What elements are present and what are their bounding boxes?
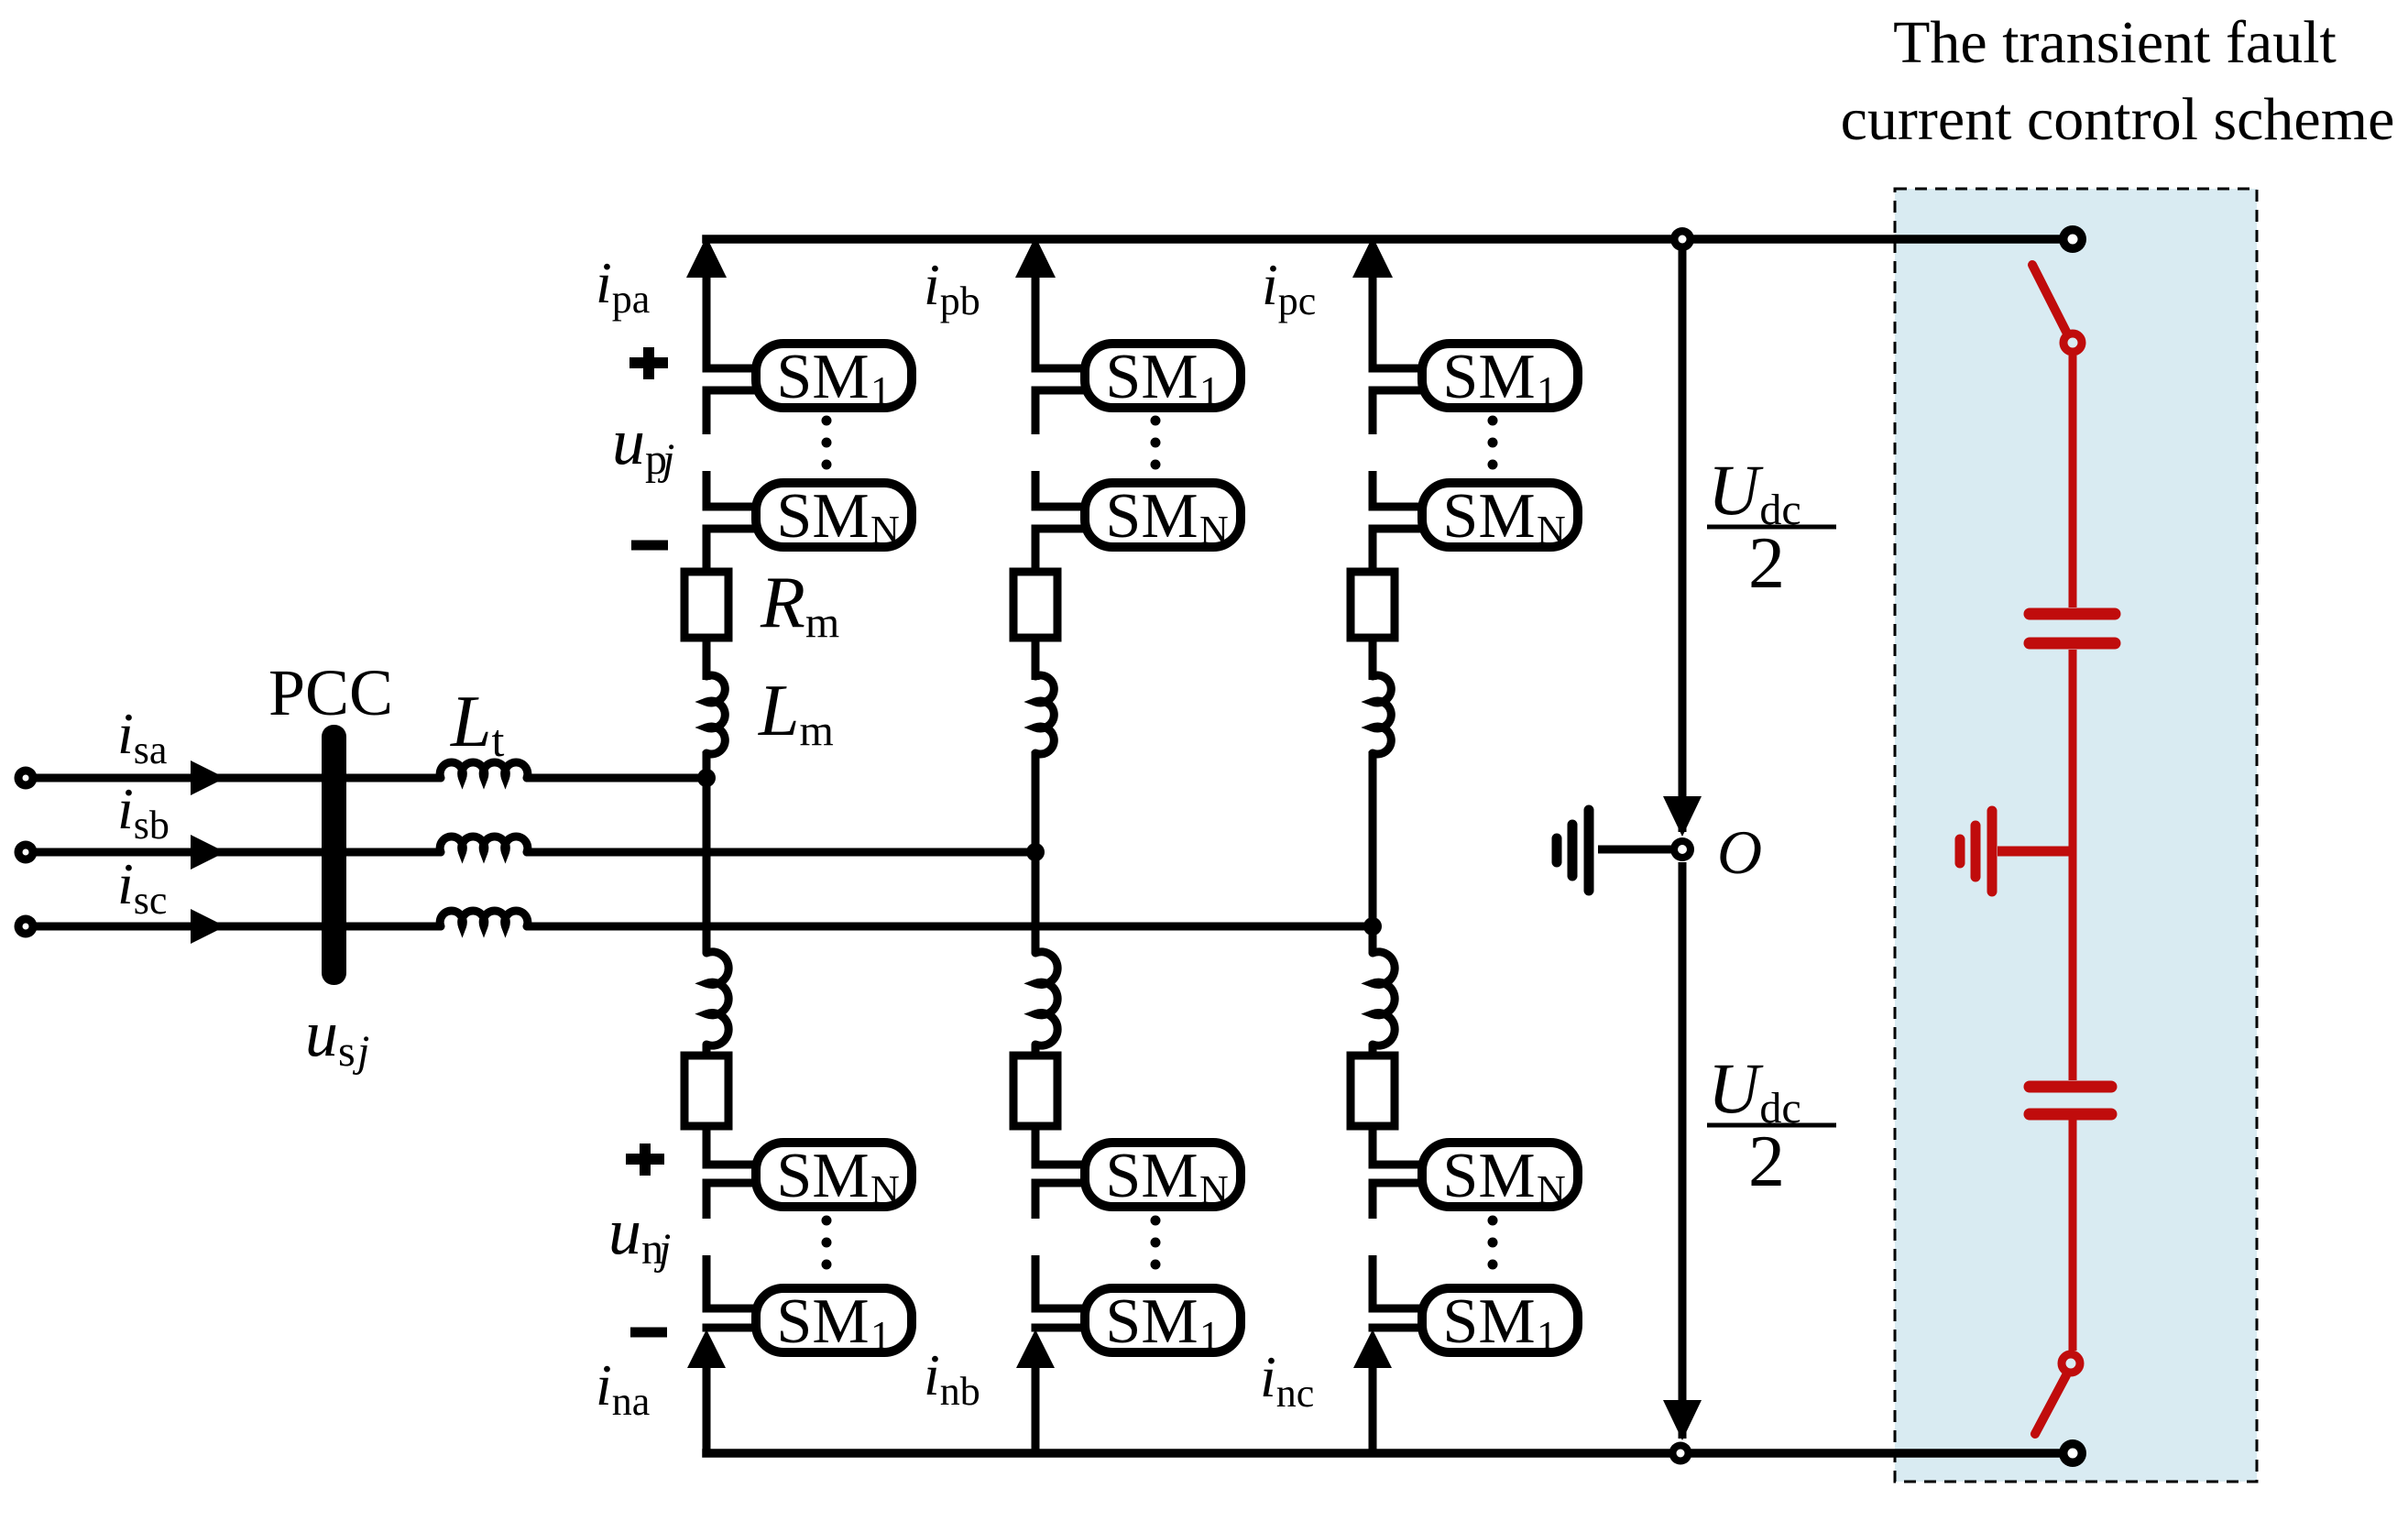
inductor L_t phase c xyxy=(440,911,528,926)
svg-text:ina: ina xyxy=(596,1352,650,1424)
svg-text:isc: isc xyxy=(117,851,167,923)
inductor L_m lower arm leg c xyxy=(1373,952,1395,1045)
svg-text:N: N xyxy=(1537,1167,1566,1212)
wire: SM stubs lower arm leg c xyxy=(1369,1161,1426,1169)
svg-text:up: up xyxy=(612,405,667,484)
label - upper arm xyxy=(631,541,668,551)
switch S2 blade (red, open) xyxy=(2035,1375,2066,1434)
terminal: DC+ to control scheme xyxy=(2059,225,2086,253)
PCC bus bar xyxy=(322,725,346,985)
wire: leg a upper arm segments xyxy=(703,271,711,372)
arrow: lower arm current i_na xyxy=(687,1330,726,1368)
label + lower arm xyxy=(626,1143,664,1176)
svg-text:PCC: PCC xyxy=(268,656,393,729)
svg-text:N: N xyxy=(1199,1167,1229,1212)
wire: red branch lower xyxy=(2069,1120,2077,1351)
terminal: AC source phase b xyxy=(15,841,38,864)
wire: leg b lower arm segments xyxy=(1032,852,1040,953)
svg-text:SM: SM xyxy=(1105,481,1198,552)
terminal: AC source phase a xyxy=(15,767,38,790)
arrow: onto bottom bus xyxy=(1663,1400,1702,1440)
svg-text:un: un xyxy=(608,1195,663,1274)
submodule SMN upper arm leg a xyxy=(756,483,912,547)
svg-text:1: 1 xyxy=(1199,368,1220,413)
wire: SM stubs upper arm leg a xyxy=(703,365,760,373)
terminal: bottom bus node xyxy=(1669,1442,1692,1465)
arrow: upper arm current i_pb xyxy=(1015,236,1056,278)
svg-text:SM: SM xyxy=(776,342,869,412)
arrow: lower arm current i_nc xyxy=(1353,1330,1392,1368)
resistor R_m lower arm leg b xyxy=(1013,1056,1057,1126)
node: AC connection leg c xyxy=(1363,917,1382,936)
svg-text:SM: SM xyxy=(1105,342,1198,412)
submodule SMN upper arm leg b xyxy=(1085,483,1241,547)
submodule SMN lower arm leg a xyxy=(756,1143,912,1207)
svg-text:Udc: Udc xyxy=(1708,1048,1801,1133)
svg-text:Lt: Lt xyxy=(450,682,505,766)
ellipsis dots lower arm leg b xyxy=(1151,1216,1161,1226)
svg-text:isb: isb xyxy=(117,776,170,848)
svg-text:SM: SM xyxy=(776,1286,869,1357)
svg-text:1: 1 xyxy=(870,368,891,413)
svg-text:N: N xyxy=(1537,508,1566,553)
wire: leg b upper arm segments xyxy=(1032,271,1040,372)
wire: leg c upper arm segments xyxy=(1369,271,1377,372)
inductor L_t phase a xyxy=(440,762,528,778)
node: AC connection leg b xyxy=(1026,843,1045,861)
svg-text:SM: SM xyxy=(1105,1141,1198,1211)
submodule SM1 lower arm leg a xyxy=(756,1288,912,1352)
ellipsis dots upper arm leg c xyxy=(1488,416,1498,426)
arrow: lower arm current i_nb xyxy=(1016,1330,1055,1368)
inductor L_m upper arm leg c xyxy=(1373,675,1391,754)
inductor L_m upper arm leg a xyxy=(706,675,725,754)
svg-text:SM: SM xyxy=(776,481,869,552)
terminal: top bus node xyxy=(1670,227,1694,251)
svg-text:SM: SM xyxy=(1105,1286,1198,1357)
svg-text:ipb: ipb xyxy=(924,252,980,323)
submodule SMN lower arm leg b xyxy=(1085,1143,1241,1207)
inductor L_t phase b xyxy=(440,837,528,852)
arrow: source current i_sb xyxy=(191,835,225,870)
submodule SM1 upper arm leg c xyxy=(1422,344,1578,408)
submodule SM1 upper arm leg b xyxy=(1085,344,1241,408)
submodule SM1 upper arm leg a xyxy=(756,344,912,408)
svg-text:inb: inb xyxy=(924,1342,980,1414)
svg-text:SM: SM xyxy=(1442,1141,1535,1211)
svg-text:N: N xyxy=(1199,508,1229,553)
inductor L_m upper arm leg b xyxy=(1035,675,1054,754)
arrow: upper arm current i_pa xyxy=(686,236,727,278)
submodule SM1 lower arm leg b xyxy=(1085,1288,1241,1352)
svg-text:isa: isa xyxy=(117,701,167,772)
wire: leg a lower arm segments xyxy=(703,778,711,953)
label + upper arm xyxy=(629,347,668,379)
svg-text:The transient fault: The transient fault xyxy=(1893,9,2337,76)
inductor L_m lower arm leg b xyxy=(1035,952,1057,1045)
transient fault current control scheme dashed box xyxy=(1895,189,2257,1482)
svg-text:2: 2 xyxy=(1748,1122,1785,1202)
node: AC connection leg a xyxy=(697,769,716,787)
capacitor C1 (red) xyxy=(2030,608,2115,620)
wire: top DC bus xyxy=(702,235,2073,244)
switch S2 pivot circle xyxy=(2062,1354,2080,1373)
wire: leg c lower arm segments xyxy=(1369,926,1377,953)
terminal: AC source phase c xyxy=(15,915,38,938)
inductor L_m lower arm leg a xyxy=(706,952,728,1045)
wire: ground stub at node O xyxy=(1598,846,1671,854)
ellipsis dots upper arm leg a xyxy=(822,416,832,426)
wire: red ground stub xyxy=(1998,847,2073,857)
ellipsis dots upper arm leg b xyxy=(1151,416,1161,426)
submodule SM1 lower arm leg c xyxy=(1422,1288,1578,1352)
ellipsis dots lower arm leg c xyxy=(1488,1216,1498,1226)
svg-text:Udc: Udc xyxy=(1708,450,1801,534)
wire: SM stubs upper arm leg b xyxy=(1032,365,1089,373)
svg-text:2: 2 xyxy=(1748,523,1785,604)
svg-text:SM: SM xyxy=(1442,1286,1535,1357)
ground symbol (red) xyxy=(1987,811,1998,892)
switch S1 pivot circle xyxy=(2063,334,2082,352)
svg-text:1: 1 xyxy=(1537,1313,1557,1358)
wire: SM stubs upper arm leg c xyxy=(1369,365,1426,373)
submodule SMN lower arm leg c xyxy=(1422,1143,1578,1207)
resistor R_m upper arm leg b xyxy=(1013,572,1057,638)
svg-text:Rm: Rm xyxy=(760,563,839,647)
wire: red branch upper xyxy=(2069,356,2077,607)
wire: DC midpoint line xyxy=(1679,239,1687,832)
wire: bottom DC bus xyxy=(702,1449,2073,1458)
resistor R_m lower arm leg a xyxy=(684,1056,728,1126)
svg-text:O: O xyxy=(1717,817,1762,887)
label - lower arm xyxy=(630,1328,667,1338)
ground symbol at node O xyxy=(1584,810,1594,891)
ellipsis dots lower arm leg a xyxy=(822,1216,832,1226)
svg-text:1: 1 xyxy=(1537,368,1557,413)
arrow: source current i_sc xyxy=(191,909,225,944)
svg-text:N: N xyxy=(870,1167,900,1212)
resistor R_m upper arm leg c xyxy=(1351,572,1395,638)
svg-text:inc: inc xyxy=(1260,1344,1314,1416)
wire: red branch middle xyxy=(2069,650,2077,1080)
svg-text:1: 1 xyxy=(1199,1313,1220,1358)
svg-text:N: N xyxy=(870,508,900,553)
svg-text:ipa: ipa xyxy=(596,250,650,322)
resistor R_m lower arm leg c xyxy=(1351,1056,1395,1126)
svg-text:SM: SM xyxy=(776,1141,869,1211)
svg-text:SM: SM xyxy=(1442,342,1535,412)
capacitor C2 (red) xyxy=(2030,1081,2111,1093)
svg-text:current control scheme: current control scheme xyxy=(1841,86,2395,153)
arrow: source current i_sa xyxy=(191,760,225,795)
svg-text:us: us xyxy=(305,997,356,1076)
node O circle xyxy=(1670,837,1694,861)
wire: SM stubs lower arm leg a xyxy=(703,1161,760,1169)
resistor R_m upper arm leg a xyxy=(684,572,728,638)
submodule SMN upper arm leg c xyxy=(1422,483,1578,547)
arrow: into node O xyxy=(1663,796,1702,837)
svg-text:ipc: ipc xyxy=(1262,252,1316,323)
wire: AC phase a input line xyxy=(26,774,441,782)
wire: AC phase c input line xyxy=(26,923,441,931)
svg-text:SM: SM xyxy=(1442,481,1535,552)
switch S1 blade (red, open) xyxy=(2032,265,2068,335)
svg-text:1: 1 xyxy=(870,1313,891,1358)
wire: AC phase b input line xyxy=(26,848,441,857)
terminal: DC- to control scheme xyxy=(2059,1439,2086,1467)
svg-text:Lm: Lm xyxy=(758,671,834,755)
wire: SM stubs lower arm leg b xyxy=(1032,1161,1089,1169)
arrow: upper arm current i_pc xyxy=(1352,236,1393,278)
